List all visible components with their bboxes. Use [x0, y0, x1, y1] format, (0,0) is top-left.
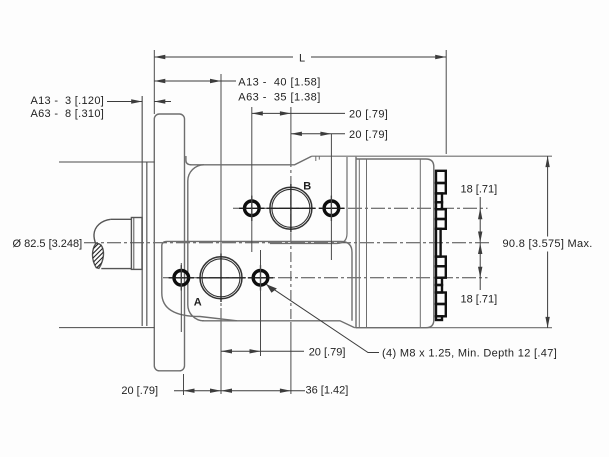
- pilot top extension tick: [59, 161, 154, 163]
- dimension L: [154, 56, 446, 58]
- extension line bolt A right: [260, 250, 262, 356]
- shaft break hatching: [88, 238, 110, 275]
- dimension A13-40: [154, 80, 236, 82]
- svg-text:20 [.79]: 20 [.79]: [349, 108, 388, 120]
- svg-text:A13 - 3 [.120]: A13 - 3 [.120]: [31, 95, 105, 107]
- serrated strip: [436, 171, 446, 320]
- shaft collar inner line: [133, 218, 135, 270]
- body front-left edge behind flange: [188, 165, 204, 321]
- extension line flange rear face bottom: [183, 374, 185, 395]
- svg-text:18 [.71]: 18 [.71]: [461, 184, 498, 196]
- bolt hole A left vertical tick: [180, 263, 182, 332]
- body top edge and 90.8 extension: [312, 155, 552, 157]
- svg-text:A13 - 40 [1.58]: A13 - 40 [1.58]: [238, 77, 320, 89]
- extension line bolt B right: [330, 134, 332, 260]
- svg-text:90.8 [3.575] Max.: 90.8 [3.575] Max.: [503, 238, 593, 250]
- joint line second: [358, 159, 360, 328]
- body bottom front edge: [202, 321, 355, 328]
- leader M8 holes: [266, 284, 379, 352]
- joint line third: [366, 159, 368, 328]
- centerline main axis: [84, 242, 489, 244]
- port B: [270, 187, 312, 229]
- svg-text:Ø 82.5 [3.248]: Ø 82.5 [3.248]: [13, 238, 83, 250]
- A boss bottom corner: [162, 293, 237, 321]
- bolt hole B left: [245, 201, 260, 216]
- flange pilot second face: [146, 162, 148, 326]
- dimension 90.8: [547, 156, 549, 328]
- dimension 20 top first: [252, 112, 345, 114]
- centerline B port vertical: [290, 107, 292, 394]
- joint line body/cap: [355, 157, 357, 328]
- svg-text:20 [.79]: 20 [.79]: [309, 347, 346, 359]
- extension line flange left top: [153, 50, 155, 114]
- flange plate: [154, 114, 184, 371]
- extension line L right: [445, 50, 447, 154]
- centerline A port horizontal: [163, 277, 488, 279]
- end cap outline: [356, 159, 434, 328]
- flange edge fillet: [186, 156, 191, 165]
- centerline B port horizontal: [233, 207, 488, 209]
- svg-text:A63 - 35 [1.38]: A63 - 35 [1.38]: [238, 92, 320, 104]
- centerline A port vertical: [220, 74, 222, 394]
- shaft collar: [131, 218, 142, 270]
- dimension 20 middle: [221, 350, 304, 352]
- joint line cap rear: [419, 159, 421, 328]
- shaft: [93, 219, 132, 268]
- svg-text:L: L: [299, 53, 305, 65]
- svg-text:A63 - 8 [.310]: A63 - 8 [.310]: [31, 108, 105, 120]
- B boss right edge: [270, 157, 347, 244]
- pilot bottom extension tick: [59, 327, 154, 329]
- extension line bolt B left: [251, 107, 253, 252]
- body chamfer ticks: [316, 156, 320, 161]
- dimension bottom row: [174, 390, 305, 392]
- body bottom rear edge and 90.8 extension: [355, 327, 553, 329]
- dimension A13-3: [107, 101, 171, 103]
- port A: [200, 257, 242, 299]
- svg-text:20 [.79]: 20 [.79]: [349, 129, 388, 141]
- bolt hole A left: [174, 271, 189, 286]
- svg-text:36 [1.42]: 36 [1.42]: [306, 385, 349, 397]
- svg-text:(4) M8 x 1.25, Min. Depth 12 [: (4) M8 x 1.25, Min. Depth 12 [.47]: [382, 348, 557, 360]
- dimension 20 top second: [291, 133, 345, 135]
- svg-text:20 [.79]: 20 [.79]: [121, 385, 158, 397]
- bolt hole A right: [253, 271, 268, 286]
- dimension 18 bottom: [479, 243, 481, 290]
- svg-text:A: A: [194, 297, 202, 309]
- flange pilot front face: [141, 96, 143, 326]
- svg-text:B: B: [303, 181, 311, 193]
- dimension 18 top: [479, 197, 481, 243]
- bolt hole B right: [324, 201, 339, 216]
- svg-text:18 [.71]: 18 [.71]: [461, 294, 498, 306]
- A boss outline: [162, 241, 352, 320]
- body front top edge: [190, 156, 312, 165]
